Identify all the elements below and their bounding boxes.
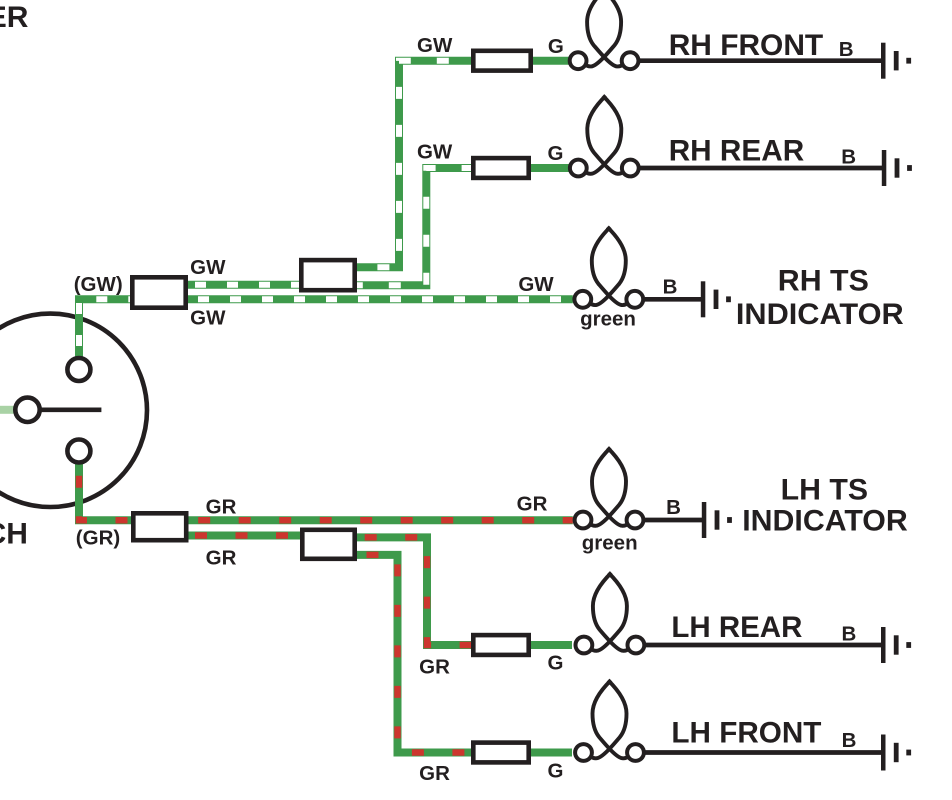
- lamp LH REAR: [576, 573, 645, 654]
- svg-text:B: B: [842, 729, 857, 752]
- svg-text:CH: CH: [0, 518, 28, 551]
- ground LH REAR: [881, 627, 911, 663]
- switch bottom terminal: [67, 440, 90, 463]
- wire GW connector C1 to connector C2: [188, 281, 300, 289]
- wire G LH FRONT connector to lamp: [531, 749, 572, 757]
- wire GR switch bottom terminal to connector C3: [79, 464, 131, 520]
- ground RH TS indicator: [701, 281, 731, 317]
- svg-text:RH TS: RH TS: [778, 264, 869, 297]
- wire GW connector C2 to RH REAR connector: [357, 168, 471, 285]
- svg-text:ER: ER: [0, 1, 29, 34]
- lamp RH FRONT: [570, 0, 639, 69]
- connector LH FRONT: [473, 743, 528, 763]
- svg-text:GW: GW: [190, 256, 226, 279]
- svg-text:GW: GW: [190, 307, 226, 330]
- wire GR connector C4 to LH REAR connector: [357, 537, 471, 645]
- ground LH FRONT: [881, 735, 911, 771]
- wire feed from flasher (pale green stub): [0, 406, 14, 414]
- svg-text:(GW): (GW): [74, 273, 123, 296]
- wire G RH REAR connector to lamp: [531, 164, 570, 172]
- lamp RH REAR: [570, 96, 639, 177]
- svg-text:GW: GW: [417, 141, 453, 164]
- wire G LH REAR connector to lamp: [531, 641, 572, 649]
- wire B LH TS indicator lamp to ground: [643, 518, 704, 523]
- svg-text:B: B: [841, 146, 856, 169]
- ground LH TS indicator: [702, 502, 732, 538]
- lamp LH FRONT: [575, 680, 644, 761]
- svg-text:green: green: [582, 532, 638, 555]
- svg-text:RH FRONT: RH FRONT: [669, 29, 824, 62]
- connector LH REAR: [473, 635, 528, 655]
- svg-text:G: G: [548, 760, 564, 783]
- wire GR connector C3 to connector C4: [189, 532, 301, 540]
- wire G RH FRONT connector to lamp: [533, 57, 570, 65]
- svg-text:B: B: [841, 623, 856, 646]
- wire GW connector C1 to RH TS indicator lamp: [188, 295, 573, 303]
- ground RH FRONT: [881, 43, 911, 79]
- wire GR connector C4 to LH FRONT connector: [357, 555, 471, 753]
- wire B LH FRONT lamp to ground: [644, 750, 883, 755]
- wire B RH REAR lamp to ground: [639, 166, 884, 171]
- svg-text:GR: GR: [206, 496, 237, 519]
- svg-text:GW: GW: [518, 273, 554, 296]
- svg-text:GW: GW: [417, 34, 453, 57]
- svg-text:GR: GR: [419, 762, 450, 785]
- wire GW switch top terminal to connector C1: [79, 299, 131, 357]
- svg-text:G: G: [548, 652, 564, 675]
- svg-text:GR: GR: [517, 493, 548, 516]
- svg-text:G: G: [548, 35, 564, 58]
- connector C4: [302, 530, 354, 559]
- switch common terminal: [15, 398, 39, 422]
- wire B LH REAR lamp to ground: [644, 643, 883, 648]
- svg-text:GR: GR: [419, 656, 450, 679]
- connector RH REAR: [473, 158, 528, 178]
- connector C1: [132, 277, 185, 307]
- svg-text:INDICATOR: INDICATOR: [736, 298, 904, 331]
- wire B RH FRONT lamp to ground: [639, 58, 883, 63]
- wire GW connector C2 to RH FRONT connector: [357, 61, 471, 268]
- switch lever: [40, 407, 101, 412]
- svg-text:B: B: [666, 496, 681, 519]
- switch body circle: [0, 314, 147, 507]
- svg-text:B: B: [663, 276, 678, 299]
- switch top terminal: [67, 358, 90, 381]
- connector C3: [133, 513, 186, 540]
- lamp LH TS indicator: [575, 448, 644, 529]
- svg-text:LH FRONT: LH FRONT: [671, 716, 821, 749]
- svg-text:LH REAR: LH REAR: [671, 611, 802, 644]
- svg-text:green: green: [580, 308, 636, 331]
- svg-text:G: G: [548, 142, 564, 165]
- wire B RH TS indicator lamp to ground: [643, 297, 703, 302]
- svg-text:RH REAR: RH REAR: [669, 135, 805, 168]
- connector RH FRONT: [473, 51, 530, 71]
- svg-text:INDICATOR: INDICATOR: [742, 505, 908, 538]
- svg-text:LH TS: LH TS: [781, 473, 868, 506]
- connector C2: [301, 260, 354, 290]
- lamp RH TS indicator: [574, 227, 643, 308]
- svg-text:B: B: [839, 38, 854, 61]
- ground RH REAR: [882, 150, 912, 186]
- svg-text:GR: GR: [206, 547, 237, 570]
- wire GR connector C3 to LH TS indicator lamp: [189, 516, 573, 524]
- svg-text:(GR): (GR): [76, 527, 120, 550]
